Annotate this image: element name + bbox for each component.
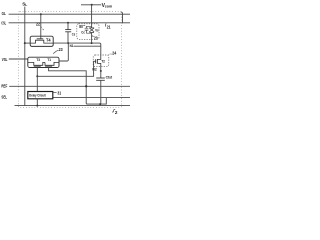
svg-text:21: 21 [107, 25, 111, 30]
node dot Vcom junction [91, 4, 93, 6]
leader for 20 [92, 34, 94, 37]
svg-text:SEL: SEL [1, 95, 7, 100]
transistor T4 glyph [30, 40, 53, 43]
capacitor Cs [67, 23, 69, 30]
svg-text:80: 80 [79, 24, 83, 29]
svg-text:22: 22 [36, 22, 40, 27]
svg-text:Cs: Cs [72, 33, 75, 37]
label 31 [57, 91, 61, 96]
label Vcom [102, 3, 113, 9]
svg-text:Delay Circuit: Delay Circuit [29, 93, 46, 97]
leader for label 2 [112, 110, 115, 113]
leader for 24 [108, 53, 112, 56]
pixel dashed border 2 [18, 11, 121, 107]
wire delay box bottom pin to SEL [36, 99, 38, 106]
transistor T4 box [30, 36, 53, 46]
label N2 [92, 68, 96, 72]
label CSL [1, 20, 6, 25]
wire line B N1 leader to T2 drain [74, 45, 101, 47]
label Vc [95, 28, 98, 32]
wire T1 source to N1 [59, 43, 68, 61]
wire Vcom stub [81, 4, 101, 6]
label T3 [36, 58, 40, 62]
svg-text:CSL: CSL [1, 20, 6, 25]
capacitor Ctst [100, 71, 102, 78]
label 80 [79, 24, 83, 29]
label GL [2, 11, 7, 16]
svg-text:N2: N2 [92, 68, 96, 72]
leader for 21 [105, 23, 108, 26]
node dot GL to T4 gate [40, 13, 42, 15]
transistors T3 T1 box 23 [28, 57, 59, 67]
organic EL element dashed box 80 [77, 24, 99, 40]
EL diode symbol [89, 28, 94, 33]
svg-text:Ctst: Ctst [106, 76, 113, 80]
label T2 [101, 60, 105, 64]
leader for 23 [53, 50, 58, 53]
label 24 [112, 50, 116, 55]
svg-text:23: 23 [59, 47, 63, 52]
label Ctst [106, 76, 113, 80]
wire GL line [9, 13, 130, 15]
leader for 80 [83, 24, 85, 27]
wire SEL line [15, 105, 131, 107]
leader for 22 [41, 26, 44, 30]
wire EL cathode from Vcom [91, 5, 93, 28]
wire T3 gate stem down [36, 67, 38, 91]
svg-text:GL: GL [2, 11, 7, 16]
transistor T1 glyph [45, 62, 59, 65]
label SEL [1, 95, 7, 100]
leader for 31 [53, 92, 56, 94]
node dot Ctst bottom on route [99, 103, 101, 105]
svg-text:VSL: VSL [2, 57, 8, 62]
node dot delay/SEL [36, 105, 38, 107]
svg-text:T3: T3 [36, 58, 40, 62]
wire right-side vertical GL-CSL [121, 12, 123, 23]
svg-text:31: 31 [57, 91, 61, 96]
node dot CSL to Cs [67, 22, 69, 24]
label Cc [81, 31, 85, 35]
svg-text:L: L [25, 3, 27, 7]
svg-text:Vc: Vc [95, 28, 98, 32]
svg-text:REF: REF [1, 84, 7, 89]
svg-text:24: 24 [112, 50, 116, 55]
wire T1 gate stem and route [49, 67, 107, 104]
wire bus76 to T2 gate [37, 61, 95, 76]
label 2 [115, 110, 118, 115]
label REF [1, 84, 7, 89]
wire bus from delay circuit right [53, 97, 130, 99]
wire line A: N1 row [53, 43, 101, 56]
wire SL vertical [24, 7, 26, 106]
svg-text:2: 2 [115, 110, 118, 115]
wire REF line [9, 85, 130, 87]
svg-text:T4: T4 [46, 37, 51, 42]
wire SL to T4 source [25, 42, 30, 44]
svg-text:T2: T2 [101, 60, 105, 64]
label VSL [2, 57, 8, 62]
wire EL anode down to line A [91, 33, 93, 44]
node dot T3 gate / bus76 [36, 75, 38, 77]
node dot EL on line A [91, 42, 93, 44]
label T4 [46, 37, 51, 42]
svg-text:com: com [105, 5, 112, 9]
node dot N2 [100, 70, 102, 72]
svg-text:T1: T1 [47, 58, 51, 62]
wire T4 gate stem from GL [40, 14, 42, 39]
capacitor Cc [87, 26, 92, 33]
node dot SL/T4 [24, 42, 26, 44]
dashed box 24 [93, 55, 109, 67]
transistor T2 [97, 56, 100, 71]
label 20 [94, 35, 98, 40]
svg-text:20: 20 [94, 35, 98, 40]
label T1 [47, 58, 51, 62]
label 21 [107, 25, 111, 30]
svg-text:Cc: Cc [81, 31, 85, 35]
wire CSL line [9, 22, 130, 24]
node dot Cs bottom on line A [67, 42, 69, 44]
wire VSL line [9, 58, 28, 60]
label 22 [36, 22, 40, 27]
svg-text:N1: N1 [70, 44, 74, 48]
label Delay Circuit [29, 93, 46, 97]
label 23 [59, 47, 63, 52]
label Cs [72, 33, 75, 37]
label N1 [70, 44, 74, 48]
transistor T3 glyph [28, 62, 45, 65]
delay circuit box 31 [28, 92, 53, 99]
node dot T1 route on REF [85, 85, 87, 87]
label SL [22, 2, 27, 7]
